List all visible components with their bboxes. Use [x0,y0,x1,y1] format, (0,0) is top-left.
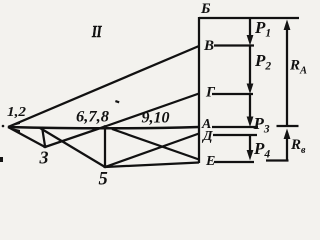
svg-text:Г: Г [205,85,216,101]
svg-text:3: 3 [39,148,49,168]
svg-text:Е: Е [205,154,215,169]
svg-text:5: 5 [99,170,108,186]
svg-text:6,7,8: 6,7,8 [76,109,109,126]
svg-text:II: II [91,22,102,41]
svg-text:Д: Д [201,129,213,144]
svg-text:Б: Б [200,1,211,17]
svg-text:9,10: 9,10 [142,110,170,127]
svg-text:В: В [203,38,214,54]
svg-text:1,2: 1,2 [7,105,26,120]
